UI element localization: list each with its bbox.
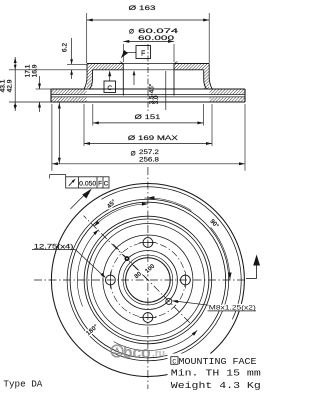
svg-text:C: C — [172, 358, 176, 366]
svg-text:16.9: 16.9 — [31, 64, 38, 77]
svg-text:43.1: 43.1 — [0, 79, 7, 92]
svg-text:256.8: 256.8 — [139, 156, 160, 163]
svg-text:.ru: .ru — [152, 347, 165, 359]
svg-text:F: F — [141, 51, 145, 58]
svg-text:Ø 151: Ø 151 — [135, 114, 162, 121]
svg-text:3.0: 3.0 — [153, 95, 160, 104]
svg-text:C: C — [107, 85, 112, 92]
svg-text:0.050: 0.050 — [79, 181, 97, 188]
svg-text:42.9: 42.9 — [7, 79, 14, 92]
svg-text:Ø: Ø — [129, 28, 134, 35]
svg-text:M8x1.25(x2): M8x1.25(x2) — [209, 304, 256, 311]
svg-text:6.2: 6.2 — [61, 43, 68, 52]
svg-text:17.1: 17.1 — [24, 64, 31, 77]
svg-text:C: C — [104, 181, 109, 188]
svg-text:257.2: 257.2 — [139, 149, 160, 156]
svg-text:F: F — [98, 181, 102, 188]
svg-text:Ø: Ø — [131, 151, 136, 158]
svg-text:Min. TH 15 mm: Min. TH 15 mm — [171, 368, 262, 379]
svg-text:Ø 169 MAX: Ø 169 MAX — [128, 135, 179, 142]
svg-text:Ø 163: Ø 163 — [129, 5, 157, 12]
svg-text:bco: bco — [123, 343, 151, 362]
svg-text:Type DA: Type DA — [3, 379, 42, 390]
svg-text:Weight 4.3 Kg: Weight 4.3 Kg — [171, 380, 261, 391]
svg-text:60.000: 60.000 — [138, 35, 175, 42]
svg-text:MOUNTING FACE: MOUNTING FACE — [179, 356, 258, 367]
